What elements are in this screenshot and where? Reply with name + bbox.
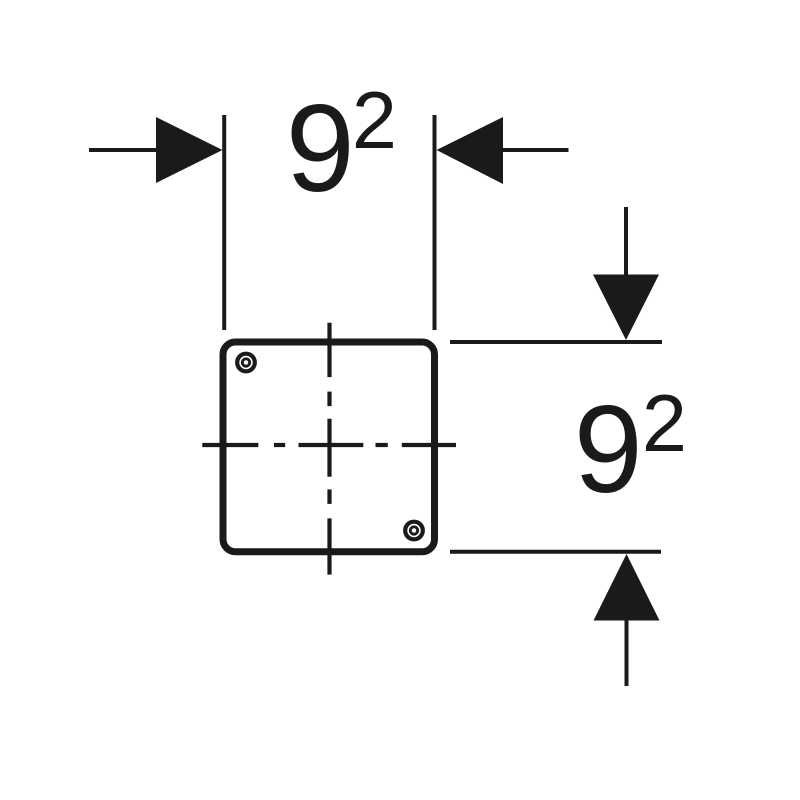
svg-text:9: 9 — [286, 80, 355, 218]
svg-text:9: 9 — [574, 381, 643, 519]
svg-text:2: 2 — [352, 76, 397, 166]
svg-text:2: 2 — [642, 379, 687, 469]
